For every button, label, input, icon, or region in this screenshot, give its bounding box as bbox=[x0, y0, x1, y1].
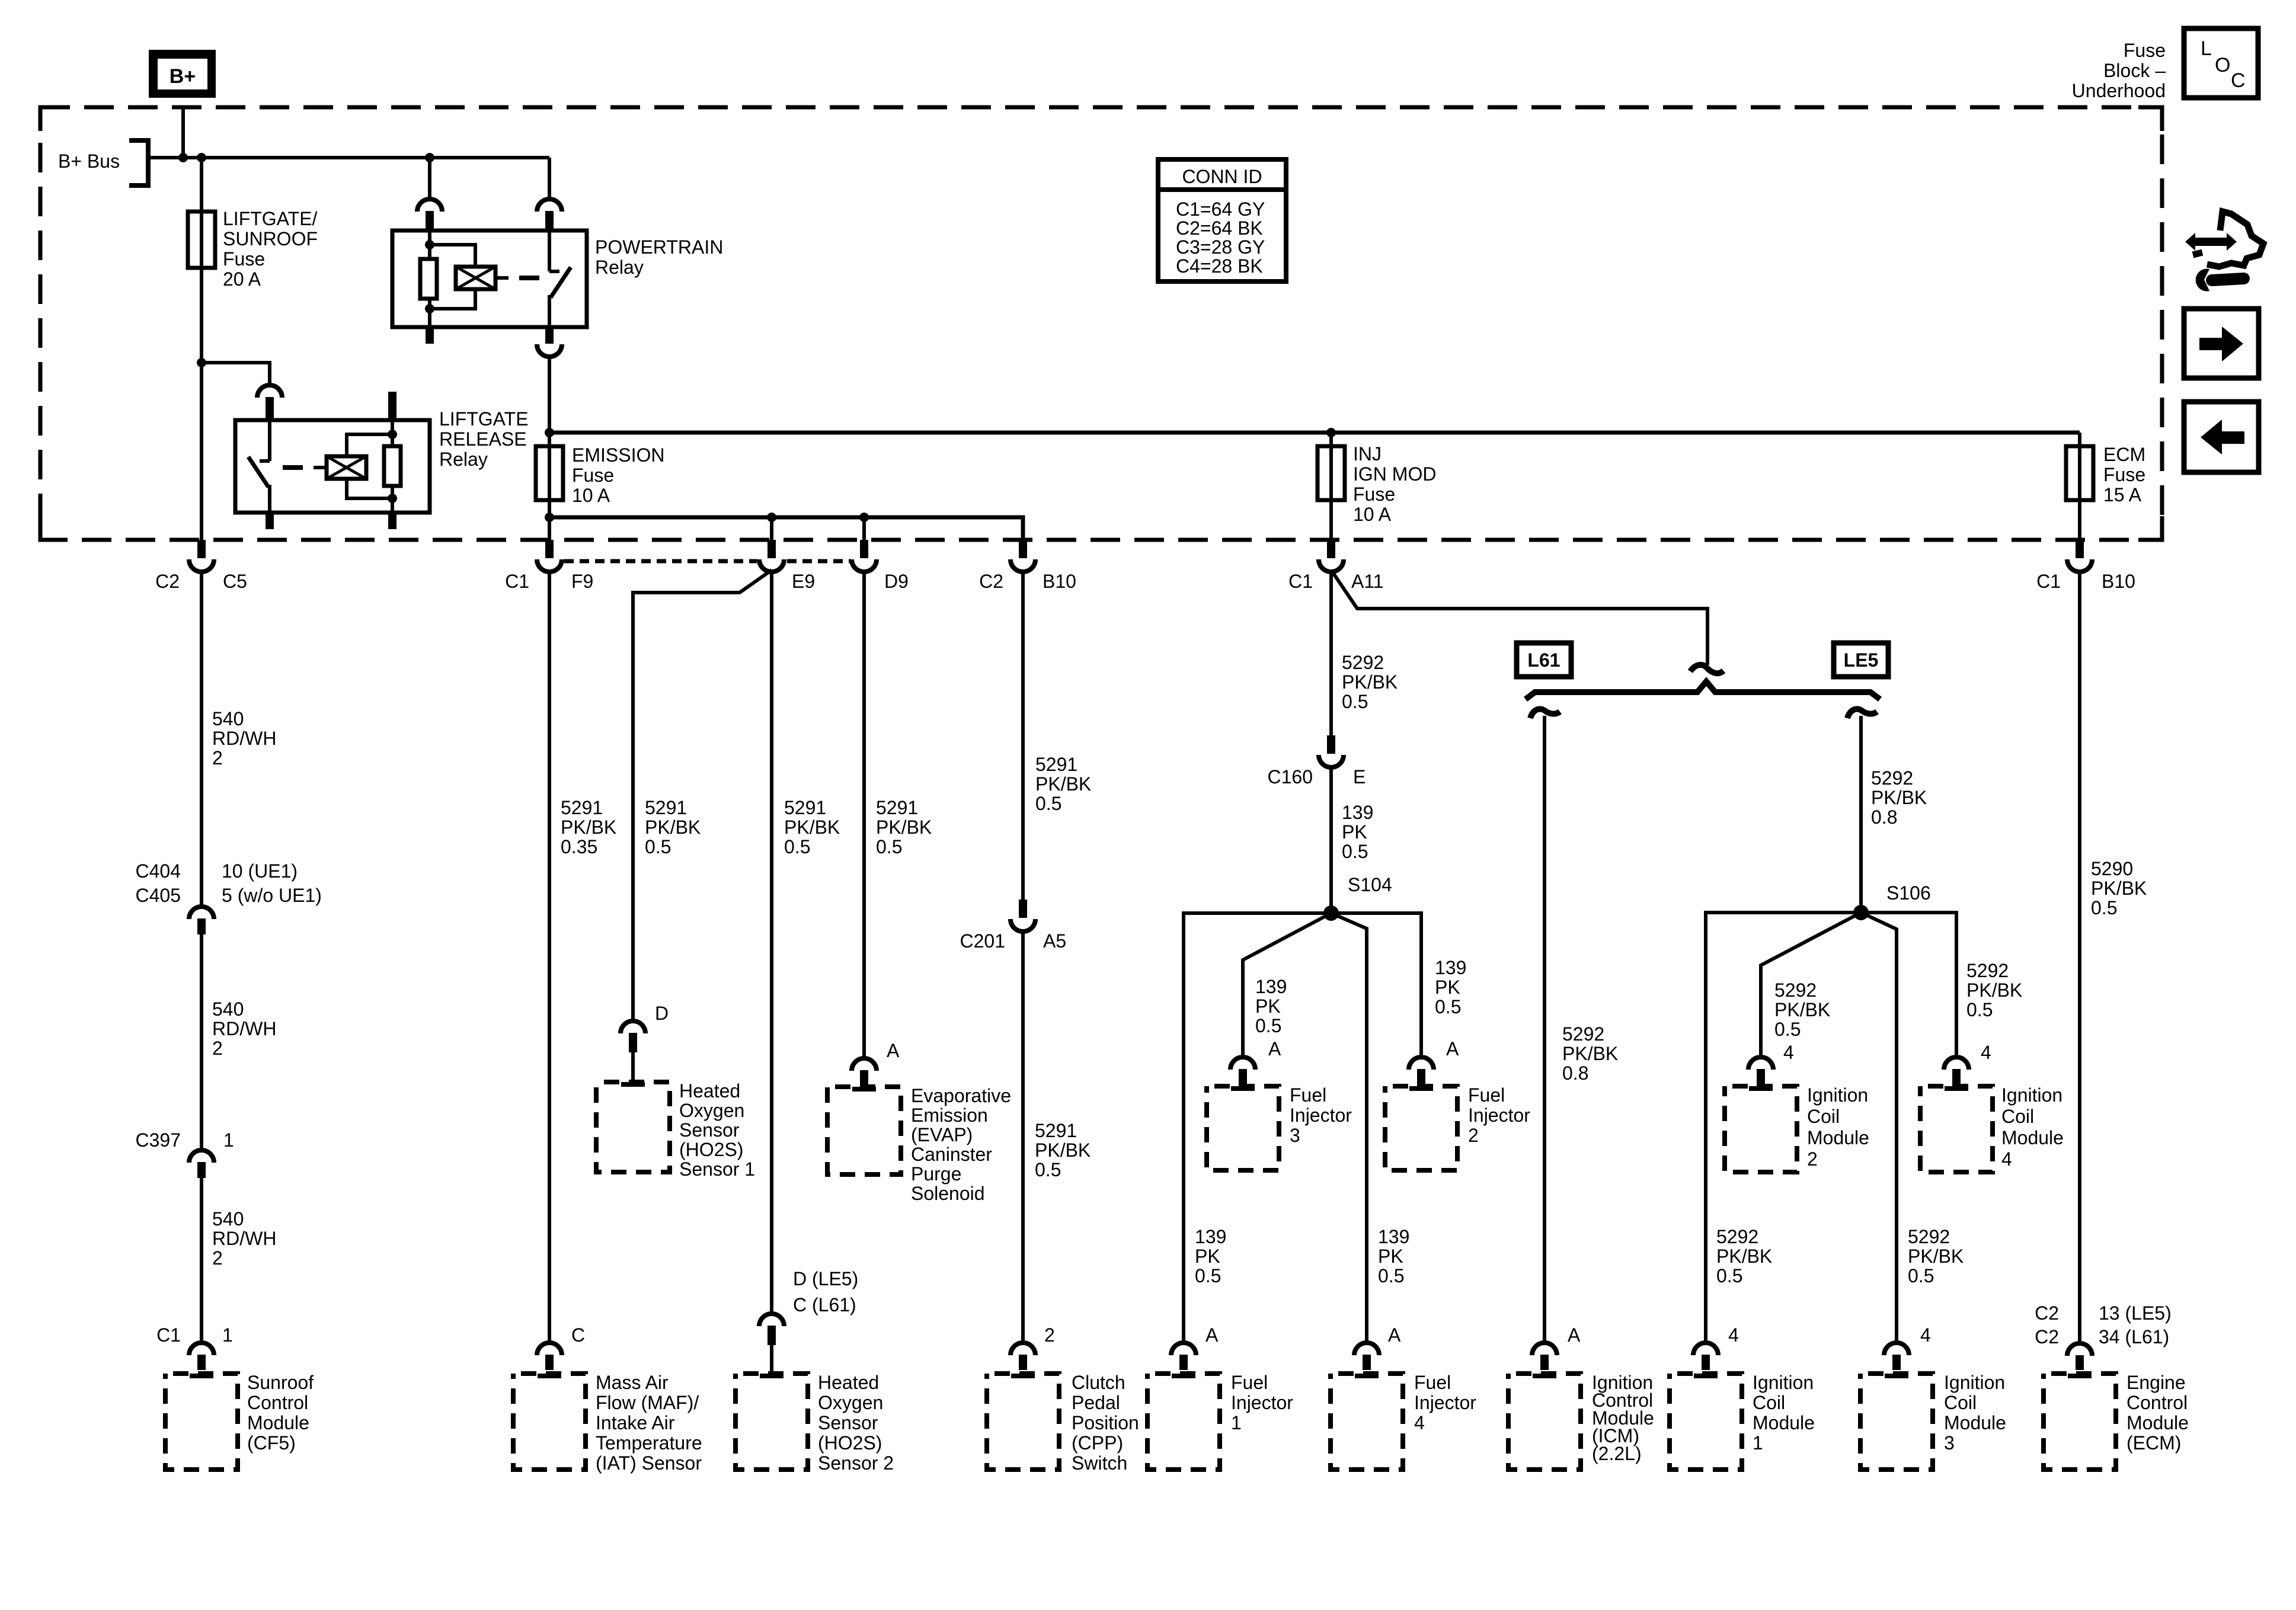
svg-text:Fuel: Fuel bbox=[1468, 1084, 1505, 1106]
label Engine Control Module (ECM) bbox=[2126, 1372, 2189, 1454]
label D9 bbox=[884, 571, 909, 592]
connector ignition coil module 4 pin 4 bbox=[1944, 1057, 1969, 1086]
svg-text:5 (w/o UE1): 5 (w/o UE1) bbox=[222, 885, 322, 906]
label C397 bbox=[136, 1129, 181, 1151]
svg-text:Injector: Injector bbox=[1468, 1105, 1530, 1126]
svg-text:Evaporative: Evaporative bbox=[911, 1085, 1011, 1106]
label C2 (B10) bbox=[979, 571, 1003, 592]
svg-text:Coil: Coil bbox=[1944, 1392, 1977, 1413]
svg-text:Module: Module bbox=[2001, 1127, 2064, 1148]
svg-text:EMISSION: EMISSION bbox=[572, 444, 664, 466]
svg-text:Clutch: Clutch bbox=[1072, 1372, 1125, 1393]
option brace bbox=[1526, 681, 1880, 699]
svg-text:0.5: 0.5 bbox=[1908, 1265, 1934, 1286]
connector C1/F9 bbox=[537, 540, 562, 572]
label A5 bbox=[1043, 930, 1066, 952]
svg-text:Switch: Switch bbox=[1072, 1452, 1127, 1474]
label Fuel Injector 1 bbox=[1231, 1372, 1293, 1433]
fuse LIFTGATE/SUNROOF 20A bbox=[188, 212, 215, 268]
label pin 4 (coil2) bbox=[1783, 1042, 1794, 1063]
label 5290 PK/BK 0.5 bbox=[2091, 858, 2147, 918]
junction bus / powertrain relay coil branch bbox=[425, 153, 434, 162]
break curl L61 branch bbox=[1530, 709, 1560, 718]
junction splice S106 bbox=[1853, 905, 1869, 920]
svg-text:C2: C2 bbox=[979, 571, 1003, 592]
label pin D (HO2S1) bbox=[655, 1003, 669, 1024]
label pin 2 (CPP) bbox=[1044, 1324, 1055, 1346]
label S106 bbox=[1886, 882, 1931, 904]
connector powertrain relay switch pin bbox=[537, 199, 562, 231]
svg-text:B10: B10 bbox=[2102, 571, 2135, 592]
svg-text:5291: 5291 bbox=[561, 797, 603, 818]
label Sunroof Control Module (CF5) bbox=[247, 1372, 314, 1454]
svg-text:0.5: 0.5 bbox=[876, 836, 902, 857]
svg-text:10 A: 10 A bbox=[1353, 504, 1392, 525]
fuse EMISSION 10A bbox=[536, 446, 563, 500]
svg-text:PK/BK: PK/BK bbox=[2091, 878, 2147, 899]
svg-text:LIFTGATE: LIFTGATE bbox=[439, 408, 529, 430]
wire sunroof column 540 RD/WH segment 3 bbox=[200, 1178, 203, 1343]
svg-text:5291: 5291 bbox=[1035, 754, 1077, 775]
fuse block border corners bbox=[40, 107, 2162, 540]
wire ICM feed bbox=[1543, 716, 1546, 1343]
svg-text:Sensor: Sensor bbox=[818, 1412, 878, 1433]
label 139 PK 0.5 (inj2) bbox=[1435, 957, 1466, 1017]
label C160 bbox=[1268, 766, 1313, 788]
label pin A (EVAP) bbox=[887, 1040, 900, 1061]
svg-text:Mass Air: Mass Air bbox=[596, 1372, 669, 1393]
svg-text:2: 2 bbox=[1468, 1125, 1479, 1146]
label LIFTGATE RELEASE Relay bbox=[439, 408, 529, 470]
label Heated Oxygen Sensor (HO2S) Sensor 1 bbox=[679, 1080, 755, 1180]
label 13 (LE5) / 34 (L61) bbox=[2099, 1302, 2172, 1347]
connector C404/C405 bbox=[189, 907, 214, 934]
label E9 bbox=[792, 571, 815, 592]
svg-text:5291: 5291 bbox=[1035, 1120, 1077, 1141]
label Ignition Coil Module 3 bbox=[1944, 1372, 2006, 1454]
connector ICM pin A bbox=[1532, 1343, 1557, 1370]
svg-text:PK/BK: PK/BK bbox=[561, 817, 616, 838]
component box Sunroof Control Module bbox=[165, 1374, 238, 1470]
svg-text:0.5: 0.5 bbox=[1378, 1265, 1404, 1286]
svg-text:0.5: 0.5 bbox=[2091, 897, 2117, 918]
connector fuel injector 4 pin A bbox=[1354, 1343, 1379, 1370]
svg-text:Emission: Emission bbox=[911, 1105, 988, 1126]
svg-text:A: A bbox=[1268, 1038, 1281, 1060]
svg-text:Sensor 2: Sensor 2 bbox=[818, 1452, 894, 1474]
label pin A (inj2) bbox=[1446, 1038, 1459, 1060]
svg-text:PK/BK: PK/BK bbox=[1716, 1246, 1772, 1267]
wire D9 drop bbox=[862, 517, 866, 540]
svg-text:2: 2 bbox=[1044, 1324, 1055, 1346]
label 5292 PK/BK 0.5 (coil2) bbox=[1774, 980, 1830, 1040]
label 5292 PK/BK 0.8 (ICM) bbox=[1562, 1023, 1618, 1084]
svg-text:B10: B10 bbox=[1043, 571, 1076, 592]
svg-text:Fuse: Fuse bbox=[1353, 484, 1395, 505]
svg-text:C2=64 BK: C2=64 BK bbox=[1176, 217, 1263, 239]
connector D9 bbox=[852, 540, 877, 572]
svg-text:4: 4 bbox=[1920, 1324, 1931, 1346]
wire inj fuse drop bbox=[1329, 433, 1333, 540]
svg-text:1: 1 bbox=[222, 1324, 233, 1346]
svg-text:Solenoid: Solenoid bbox=[911, 1183, 985, 1204]
component box Ignition Coil Module 3 bbox=[1860, 1374, 1933, 1470]
wire sunroof column upper bbox=[200, 363, 203, 540]
label pin 4 (coil3) bbox=[1920, 1324, 1931, 1346]
svg-text:Fuse: Fuse bbox=[223, 248, 265, 270]
svg-text:Oxygen: Oxygen bbox=[679, 1100, 744, 1121]
svg-text:5292: 5292 bbox=[1966, 960, 2009, 981]
wire liftgate relay feed bbox=[202, 363, 270, 385]
component box MAF/IAT sensor bbox=[513, 1374, 586, 1470]
connector ECM connector bbox=[2067, 1343, 2092, 1370]
wire B+ bus horizontal bbox=[146, 156, 549, 159]
wire injector trunk bbox=[1329, 570, 1333, 735]
component box HO2S sensor 1 bbox=[596, 1082, 670, 1172]
svg-text:Ignition: Ignition bbox=[1753, 1372, 1814, 1393]
label 5292 PK/BK 0.5 (A11) bbox=[1342, 652, 1398, 712]
wire ign feed rail bbox=[549, 431, 2080, 435]
svg-text:15 A: 15 A bbox=[2103, 484, 2142, 505]
svg-text:C2: C2 bbox=[2035, 1302, 2059, 1324]
wire liftgate fuse feed bbox=[200, 158, 203, 363]
svg-text:D (LE5): D (LE5) bbox=[793, 1268, 858, 1289]
wire powertrain relay switch feed bbox=[548, 158, 551, 200]
connector C2/B10 bbox=[1011, 540, 1035, 572]
label B10 (ECM) bbox=[2102, 571, 2135, 592]
liftgate relay switch bottom stub bbox=[266, 513, 274, 529]
svg-text:4: 4 bbox=[1728, 1324, 1739, 1346]
svg-text:RELEASE: RELEASE bbox=[439, 428, 527, 450]
svg-text:A: A bbox=[1205, 1324, 1219, 1346]
label 139 PK 0.5 (S104 feed) bbox=[1342, 802, 1373, 862]
label 540 RD/WH 2 (2) bbox=[212, 998, 276, 1059]
junction splice S104 bbox=[1323, 905, 1339, 921]
svg-text:139: 139 bbox=[1435, 957, 1466, 978]
svg-text:C1=64 GY: C1=64 GY bbox=[1176, 199, 1265, 220]
svg-text:0.5: 0.5 bbox=[1716, 1265, 1742, 1286]
svg-text:4: 4 bbox=[1981, 1042, 1991, 1063]
connector ignition coil module 2 pin 4 bbox=[1748, 1057, 1773, 1086]
icon arrow back bbox=[2184, 402, 2259, 472]
svg-text:Injector: Injector bbox=[1231, 1392, 1293, 1413]
svg-text:Module: Module bbox=[1807, 1127, 1869, 1148]
svg-text:C4=28 BK: C4=28 BK bbox=[1176, 255, 1263, 277]
component box Fuel Injector 3 bbox=[1207, 1086, 1279, 1170]
svg-text:Fuse: Fuse bbox=[572, 465, 614, 486]
svg-text:Sensor 1: Sensor 1 bbox=[679, 1158, 755, 1180]
svg-text:IGN MOD: IGN MOD bbox=[1353, 463, 1436, 485]
svg-text:C1: C1 bbox=[1288, 571, 1313, 592]
label 5292 PK/BK 0.8 (S106 feed) bbox=[1871, 767, 1927, 828]
label D (LE5) / C (L61) bbox=[793, 1268, 858, 1315]
wire CPP feed lower bbox=[1021, 933, 1025, 1343]
label 10 (UE1) / 5 (w/o UE1) bbox=[222, 860, 322, 906]
svg-text:5291: 5291 bbox=[876, 797, 918, 818]
svg-text:1: 1 bbox=[1231, 1412, 1242, 1433]
svg-text:0.8: 0.8 bbox=[1562, 1062, 1588, 1084]
svg-text:1: 1 bbox=[223, 1129, 234, 1151]
label Ignition Coil Module 4 bbox=[2001, 1084, 2064, 1170]
icon LOC bbox=[2184, 28, 2258, 98]
label Clutch Pedal Position (CPP) Switch bbox=[1072, 1372, 1139, 1474]
label B10 bbox=[1043, 571, 1076, 592]
connector C2/C5 bbox=[189, 540, 214, 572]
wire injector 2 branch bbox=[1331, 913, 1421, 1057]
svg-text:34 (L61): 34 (L61) bbox=[2099, 1326, 2169, 1347]
wire ECM feed bbox=[2078, 573, 2081, 1343]
junction bus / B+ drop bbox=[178, 153, 188, 162]
label Ignition Coil Module 1 bbox=[1753, 1372, 1815, 1454]
svg-text:Heated: Heated bbox=[679, 1080, 740, 1102]
connector fuel injector 1 pin A bbox=[1171, 1343, 1196, 1370]
label 5291 PK/BK 0.5 (B10) bbox=[1035, 754, 1091, 814]
svg-text:5292: 5292 bbox=[1342, 652, 1384, 673]
svg-text:C2: C2 bbox=[155, 571, 180, 592]
wire B+ drop bbox=[181, 107, 185, 158]
connector link dotted line F9-E9-D9 bbox=[564, 559, 757, 564]
icon arrow forward bbox=[2184, 309, 2259, 378]
label 5291 PK/BK 0.5 (HO2S1) bbox=[645, 797, 701, 857]
svg-text:A: A bbox=[887, 1040, 900, 1061]
label C1 (ECM) bbox=[2036, 571, 2061, 592]
svg-text:S106: S106 bbox=[1886, 882, 1931, 904]
wire injector 1 branch bbox=[1184, 913, 1331, 1343]
svg-text:Oxygen: Oxygen bbox=[818, 1392, 883, 1413]
label Ignition Control Module (ICM) (2.2L) bbox=[1592, 1372, 1654, 1464]
svg-text:A: A bbox=[1568, 1324, 1581, 1346]
svg-text:RD/WH: RD/WH bbox=[212, 1018, 276, 1039]
wire EVAP feed bbox=[862, 573, 866, 1058]
label F9 bbox=[571, 571, 593, 592]
junction emission/inj feed junction bbox=[545, 428, 554, 437]
svg-text:0.5: 0.5 bbox=[1342, 691, 1368, 712]
svg-text:Ignition: Ignition bbox=[1944, 1372, 2005, 1393]
fuse block underhood dashed border bbox=[40, 107, 2162, 540]
icon service information bbox=[2185, 212, 2263, 292]
label 540 RD/WH 2 (1) bbox=[212, 708, 276, 769]
label 5292 PK/BK 0.5 (coil4) bbox=[1966, 960, 2022, 1020]
svg-text:Engine: Engine bbox=[2126, 1372, 2186, 1393]
svg-text:C1: C1 bbox=[505, 571, 529, 592]
label 540 RD/WH 2 (3) bbox=[212, 1208, 276, 1269]
svg-text:5292: 5292 bbox=[1908, 1226, 1950, 1247]
component box HO2S sensor 2 bbox=[736, 1374, 808, 1470]
component box EVAP purge solenoid bbox=[827, 1087, 901, 1174]
component box Ignition Coil Module 4 bbox=[1920, 1086, 1993, 1172]
label pin 4 (coil4) bbox=[1981, 1042, 1991, 1063]
svg-text:2: 2 bbox=[212, 1038, 223, 1059]
svg-text:C404: C404 bbox=[136, 860, 181, 882]
connector C1/A11 bbox=[1319, 540, 1344, 572]
node B+ Bus bracket bbox=[129, 140, 148, 185]
svg-text:A11: A11 bbox=[1351, 571, 1384, 592]
connector C160/E bbox=[1319, 735, 1344, 767]
svg-text:A: A bbox=[1446, 1038, 1459, 1060]
svg-text:(ECM): (ECM) bbox=[2126, 1432, 2181, 1454]
svg-text:D: D bbox=[655, 1003, 669, 1024]
junction inj fuse junction bbox=[1326, 428, 1336, 437]
svg-text:E: E bbox=[1353, 766, 1366, 788]
component box Ignition Coil Module 1 bbox=[1670, 1374, 1742, 1470]
svg-text:Injector: Injector bbox=[1290, 1105, 1352, 1126]
wire coil module 4 branch bbox=[1861, 913, 1956, 1057]
svg-text:Coil: Coil bbox=[1753, 1392, 1785, 1413]
svg-text:Module: Module bbox=[1753, 1412, 1815, 1433]
svg-text:3: 3 bbox=[1944, 1432, 1955, 1454]
svg-text:PK/BK: PK/BK bbox=[1562, 1043, 1618, 1064]
svg-text:C (L61): C (L61) bbox=[793, 1294, 856, 1315]
svg-text:PK/BK: PK/BK bbox=[1871, 787, 1927, 808]
connector C397 bbox=[189, 1150, 214, 1178]
svg-text:0.5: 0.5 bbox=[645, 836, 671, 857]
svg-text:Purge: Purge bbox=[911, 1163, 961, 1185]
wire HO2S1 jog bbox=[633, 570, 772, 1021]
label 5291 PK/BK 0.5 (CPP) bbox=[1035, 1120, 1091, 1180]
wire CPP feed upper bbox=[1021, 573, 1025, 900]
liftgate relay coil top stub bbox=[388, 392, 396, 420]
label C2 bbox=[155, 571, 180, 592]
label pin A (ICM) bbox=[1568, 1324, 1581, 1346]
svg-text:5292: 5292 bbox=[1774, 980, 1817, 1001]
svg-text:LE5: LE5 bbox=[1844, 649, 1879, 671]
wire S106 feed bbox=[1859, 716, 1863, 913]
break curl LE5 branch bbox=[1847, 709, 1877, 718]
svg-text:C201: C201 bbox=[960, 930, 1006, 952]
svg-text:20 A: 20 A bbox=[223, 268, 261, 290]
svg-text:540: 540 bbox=[212, 998, 244, 1020]
svg-text:B+ Bus: B+ Bus bbox=[58, 151, 120, 172]
svg-text:10 A: 10 A bbox=[572, 485, 610, 506]
svg-text:4: 4 bbox=[2001, 1148, 2012, 1170]
svg-text:139: 139 bbox=[1342, 802, 1373, 823]
svg-text:PK/BK: PK/BK bbox=[645, 817, 701, 838]
component box Ignition Control Module ICM bbox=[1508, 1374, 1581, 1470]
svg-text:A: A bbox=[1388, 1324, 1401, 1346]
svg-text:Position: Position bbox=[1072, 1412, 1139, 1433]
wire emission feed rail bbox=[549, 517, 1023, 540]
svg-text:5290: 5290 bbox=[2091, 858, 2133, 879]
label C1 (F9) bbox=[505, 571, 529, 592]
label C5 bbox=[223, 571, 247, 592]
label ECM Fuse 15 A bbox=[2103, 444, 2145, 505]
fuse ECM 15A bbox=[2066, 446, 2093, 500]
label pin 1 (sunroof) bbox=[222, 1324, 233, 1346]
component box Fuel Injector 4 bbox=[1331, 1374, 1403, 1470]
wire sunroof column 540 RD/WH segment 2 bbox=[200, 934, 203, 1150]
svg-text:C1: C1 bbox=[2036, 571, 2061, 592]
relay LIFTGATE RELEASE bbox=[235, 420, 430, 513]
svg-text:1: 1 bbox=[1753, 1432, 1763, 1454]
svg-text:Pedal: Pedal bbox=[1072, 1392, 1120, 1413]
label 5292 PK/BK 0.5 (coil3) bbox=[1908, 1226, 1964, 1286]
wire MAF feed bbox=[548, 573, 551, 1343]
svg-text:Control: Control bbox=[247, 1392, 308, 1413]
svg-text:Temperature: Temperature bbox=[596, 1432, 702, 1454]
svg-text:PK/BK: PK/BK bbox=[1908, 1246, 1964, 1267]
label C404 C405 bbox=[136, 860, 181, 906]
label pin 1 (C397) bbox=[223, 1129, 234, 1151]
svg-text:SUNROOF: SUNROOF bbox=[223, 228, 318, 249]
svg-text:(HO2S): (HO2S) bbox=[818, 1432, 882, 1454]
svg-text:F9: F9 bbox=[571, 571, 593, 592]
svg-text:5292: 5292 bbox=[1871, 767, 1913, 789]
label pin A (inj3) bbox=[1268, 1038, 1281, 1060]
wire powertrain relay output bbox=[548, 357, 551, 540]
svg-text:D9: D9 bbox=[884, 571, 909, 592]
wire HO2S1 pigtail bbox=[631, 1052, 635, 1082]
label C2 / C2 (ECM) bbox=[2035, 1302, 2059, 1347]
connector EVAP pin A bbox=[852, 1058, 877, 1087]
svg-text:B+: B+ bbox=[170, 65, 196, 88]
wire E9 drop bbox=[770, 517, 773, 540]
svg-text:3: 3 bbox=[1290, 1125, 1300, 1146]
svg-text:RD/WH: RD/WH bbox=[212, 728, 276, 749]
svg-text:PK/BK: PK/BK bbox=[784, 817, 840, 838]
svg-text:Relay: Relay bbox=[439, 449, 488, 470]
label POWERTRAIN Relay bbox=[595, 236, 723, 278]
svg-text:Underhood: Underhood bbox=[2072, 80, 2166, 101]
svg-text:Caninster: Caninster bbox=[911, 1144, 992, 1165]
label Mass Air Flow (MAF)/ Intake Air Temperature (IAT) Sensor bbox=[596, 1372, 702, 1474]
svg-text:Relay: Relay bbox=[595, 257, 644, 278]
label Fuel Injector 3 bbox=[1290, 1084, 1352, 1146]
svg-text:139: 139 bbox=[1195, 1226, 1226, 1247]
svg-text:Coil: Coil bbox=[1807, 1106, 1840, 1127]
label 5291 PK/BK 0.35 bbox=[561, 797, 616, 857]
label S104 bbox=[1348, 874, 1392, 895]
svg-text:Injector: Injector bbox=[1414, 1392, 1476, 1413]
wire injector 4 branch bbox=[1331, 913, 1367, 1343]
svg-text:LIFTGATE/: LIFTGATE/ bbox=[223, 208, 318, 229]
connector fuel injector 3 pin A bbox=[1230, 1057, 1255, 1086]
CONN ID table bbox=[1158, 159, 1286, 281]
svg-text:Block –: Block – bbox=[2103, 60, 2166, 81]
label C201 bbox=[960, 930, 1006, 952]
label EMISSION Fuse 10 A bbox=[572, 444, 664, 506]
svg-text:PK/BK: PK/BK bbox=[1342, 671, 1398, 693]
option box LE5 bbox=[1834, 643, 1888, 677]
svg-text:PK/BK: PK/BK bbox=[876, 817, 932, 838]
connector E9 bbox=[759, 540, 784, 572]
svg-text:0.5: 0.5 bbox=[1966, 999, 1993, 1020]
svg-text:(2.2L): (2.2L) bbox=[1592, 1443, 1642, 1464]
label Evaporative Emission (EVAP) Caninster Purge Solenoid bbox=[911, 1085, 1011, 1204]
svg-text:2: 2 bbox=[212, 747, 223, 769]
svg-text:Sensor: Sensor bbox=[679, 1119, 740, 1141]
powertrain relay coil bottom stub bbox=[426, 327, 434, 344]
svg-text:Module: Module bbox=[2126, 1412, 2189, 1433]
svg-text:0.5: 0.5 bbox=[784, 836, 810, 857]
fuse INJ IGN MOD 10A bbox=[1318, 446, 1345, 500]
wire coil module 1 branch bbox=[1706, 913, 1861, 1343]
power symbol B+ bbox=[149, 50, 216, 98]
component box Fuel Injector 2 bbox=[1385, 1086, 1457, 1170]
svg-text:2: 2 bbox=[1807, 1148, 1818, 1170]
svg-text:CONN ID: CONN ID bbox=[1182, 166, 1262, 187]
relay POWERTRAIN bbox=[392, 231, 587, 327]
svg-text:ECM: ECM bbox=[2103, 444, 2145, 465]
connector liftgate relay switch pin bbox=[257, 385, 282, 420]
label Fuel Injector 2 bbox=[1468, 1084, 1530, 1146]
label INJ IGN MOD Fuse 10 A bbox=[1353, 443, 1436, 525]
svg-text:INJ: INJ bbox=[1353, 443, 1382, 465]
connector sunroof module pin 1 bbox=[189, 1343, 214, 1370]
svg-text:2: 2 bbox=[212, 1247, 223, 1269]
svg-text:0.5: 0.5 bbox=[1035, 1159, 1061, 1180]
svg-text:5291: 5291 bbox=[784, 797, 826, 818]
junction bus / liftgate fuse branch bbox=[197, 153, 206, 162]
